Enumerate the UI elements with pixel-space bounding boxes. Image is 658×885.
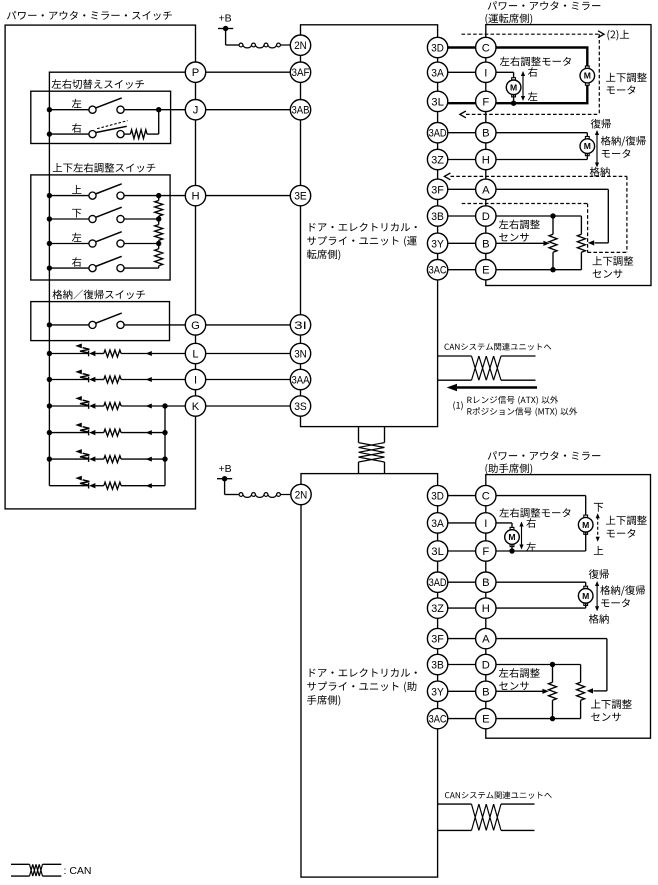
wire: 3F to A sensor wiper — [438, 188, 609, 190]
wire: motor to H — [585, 603, 587, 608]
switch contact — [117, 265, 124, 272]
resistor — [130, 130, 147, 139]
svg-text:3F: 3F — [431, 634, 444, 646]
mirror box: power outer mirror (driver side) — [486, 25, 651, 286]
label: up/down adjust sensor — [591, 699, 632, 709]
wire — [95, 432, 103, 434]
box: up/down/left/right adjusting switch — [31, 175, 170, 280]
label: retract/return motor — [600, 585, 645, 596]
svg-text:B: B — [482, 686, 489, 698]
wire — [49, 458, 88, 460]
mirror pin E — [476, 708, 496, 728]
wire — [552, 665, 554, 683]
arrow: travel right/left — [521, 525, 523, 546]
arrow: motor travel right/left — [522, 75, 524, 98]
circuit breaker coil — [239, 493, 243, 497]
mirror box: power outer mirror (passenger side) — [486, 475, 651, 739]
connector pin L — [185, 343, 205, 363]
arrow: wiper to up/down sensor — [587, 688, 593, 693]
label: 左 — [72, 233, 82, 242]
connector pin P — [185, 62, 205, 82]
CAN braid symbol vertical — [359, 443, 385, 462]
wire: 3AC to E sensor bottom — [438, 269, 582, 271]
circuit breaker coil — [239, 43, 243, 47]
svg-text:D: D — [482, 211, 490, 223]
mirror pin H — [476, 149, 496, 169]
connector pin 2N — [290, 35, 310, 55]
connector pin 3S — [290, 396, 310, 416]
wire — [49, 379, 88, 381]
wire: to G — [124, 324, 195, 326]
wire — [49, 432, 88, 434]
node: bus junction — [47, 216, 52, 221]
connector pin 3I — [290, 315, 310, 335]
svg-text:I: I — [484, 67, 487, 79]
svg-text:3D: 3D — [431, 491, 444, 503]
label: retract/return motor — [601, 136, 646, 147]
node: junction — [162, 430, 167, 435]
label: power outer mirror (driver side) — [488, 1, 601, 10]
connector pin H — [185, 185, 205, 205]
wire — [147, 133, 159, 135]
label: right — [528, 67, 537, 77]
svg-text:A: A — [482, 634, 490, 646]
svg-text:J: J — [193, 105, 199, 117]
svg-text:K: K — [192, 401, 200, 413]
switch contact — [89, 106, 96, 113]
switch contact — [89, 321, 96, 328]
motor M retract/return (passenger) — [584, 586, 588, 589]
node: junction on F — [511, 101, 516, 106]
label: left/right adjust sensor — [499, 668, 540, 678]
wire: up to J row — [158, 110, 160, 134]
node: junction — [162, 456, 167, 461]
wire with arrow — [121, 353, 195, 355]
svg-text:I: I — [484, 518, 487, 530]
label: right — [526, 518, 535, 528]
svg-text:3I: 3I — [294, 320, 307, 332]
node: junction — [156, 193, 161, 198]
connector pin I — [185, 369, 205, 389]
wire: down to sensor — [552, 216, 554, 234]
wire: A wiper path — [607, 189, 609, 243]
LED indicator row 1 — [88, 351, 90, 357]
svg-text:3B: 3B — [431, 660, 444, 672]
wire with arrow — [121, 379, 195, 381]
motor M left/right adjust (driver) — [512, 78, 516, 81]
wire: 3Y to B wiper — [438, 690, 543, 692]
legend: CAN symbol — [11, 863, 30, 865]
label: 右 — [72, 257, 81, 267]
label: to CAN system related units (lower) — [445, 791, 552, 799]
svg-text:3AF: 3AF — [292, 67, 310, 79]
svg-text:3B: 3B — [431, 211, 444, 223]
connector pin 3AD — [427, 572, 447, 592]
switch lever (right, solid) — [95, 126, 126, 132]
wire — [49, 405, 88, 407]
connector pin 3AC — [427, 260, 447, 280]
mirror pin I — [476, 62, 496, 82]
resistor — [104, 350, 121, 357]
wire: right row — [124, 267, 159, 269]
connector pin 3AC — [427, 708, 447, 728]
svg-text:I: I — [194, 375, 197, 387]
dashed line — [626, 176, 628, 252]
label: left/right adjusting motor — [499, 508, 570, 518]
mirror pin F — [476, 541, 496, 561]
svg-text:+B: +B — [219, 13, 232, 25]
connector pin 3Z — [427, 149, 447, 169]
wire: supply bus from P — [49, 71, 195, 73]
connector pin K — [185, 396, 205, 416]
wire: to junction — [124, 109, 159, 111]
power tap +B — [218, 28, 233, 30]
svg-text:H: H — [482, 603, 490, 615]
wire: left row — [124, 243, 159, 245]
wire rows switch to unit — [196, 71, 301, 73]
wire: 3Z to H — [438, 607, 586, 609]
wire — [49, 485, 88, 487]
connector pin 3AF — [290, 62, 310, 82]
wire: 3B to D — [438, 664, 581, 666]
connector pin 3Z — [427, 598, 447, 618]
wire: 3A to I — [438, 522, 512, 524]
wire — [552, 252, 554, 269]
mirror pin H — [476, 598, 496, 618]
label: power outer mirror switch — [7, 11, 172, 20]
switch contact — [89, 131, 96, 138]
connector pin 3L — [427, 91, 447, 111]
wire: down to sensor 2 — [580, 216, 582, 234]
node: bus junction — [47, 403, 52, 408]
wire — [49, 195, 89, 197]
label: retract — [590, 167, 610, 177]
node: bus junction — [47, 265, 52, 270]
switch contact — [89, 265, 96, 272]
svg-text:M: M — [584, 141, 591, 151]
wire — [49, 267, 89, 269]
wire: right vertical of LED matrix — [164, 406, 166, 486]
connector pin 3L — [427, 541, 447, 561]
svg-text:3N: 3N — [294, 349, 307, 361]
svg-text:3AA: 3AA — [292, 375, 310, 387]
svg-text:3L: 3L — [431, 546, 444, 558]
svg-text:M: M — [510, 82, 517, 92]
mirror pin B (sensor) — [476, 233, 496, 253]
resistor — [155, 249, 163, 266]
wire — [49, 243, 89, 245]
node: junction D row — [550, 662, 555, 667]
CAN braid symbol (lower) — [472, 804, 502, 830]
svg-text:2N: 2N — [294, 40, 307, 52]
label: power outer mirror (passenger side) — [488, 451, 601, 460]
wire — [580, 700, 582, 718]
arrow: signal direction (1) — [456, 386, 537, 389]
svg-text:C: C — [482, 43, 490, 55]
wire — [124, 133, 130, 135]
wire: 3AD to B — [438, 581, 586, 583]
wire — [225, 29, 227, 46]
label: left/right adjust sensor — [499, 220, 540, 230]
switch contact — [117, 321, 124, 328]
svg-text:C: C — [482, 491, 490, 503]
node: junction E row — [550, 716, 555, 721]
node: junction — [156, 241, 161, 246]
switch lever — [95, 256, 121, 266]
wire: chain vertical segments — [158, 196, 160, 201]
connector pin G — [185, 315, 205, 335]
svg-text:P: P — [192, 67, 199, 79]
connector pin 3F — [427, 628, 447, 648]
mirror pin B (sensor) — [476, 681, 496, 701]
potentiometer: left/right adjust sensor — [549, 234, 557, 252]
connector pin 3Y — [427, 681, 447, 701]
label: 下 — [72, 209, 81, 218]
wire — [280, 44, 300, 46]
wire: I to left/right motor — [511, 523, 513, 530]
svg-text:3AC: 3AC — [429, 714, 447, 726]
label: (2) up — [607, 30, 629, 41]
LED indicator row 2 — [88, 377, 90, 383]
svg-text:3Y: 3Y — [431, 238, 444, 250]
mirror pin C — [476, 37, 496, 57]
node: bus junction right row — [47, 131, 52, 136]
node: bus junction — [47, 430, 52, 435]
switch lever (left) — [95, 98, 121, 108]
mirror pin E — [476, 260, 496, 280]
potentiometer: up/down adjust sensor — [577, 234, 585, 252]
connector pin 3AA — [290, 369, 310, 389]
wire: junction to J — [159, 109, 196, 111]
svg-text:L: L — [192, 349, 198, 361]
connector pin 3A — [427, 513, 447, 533]
svg-text:: CAN: : CAN — [64, 865, 92, 877]
node: bus junction — [47, 351, 52, 356]
svg-text:B: B — [482, 128, 489, 140]
connector pin J — [185, 100, 205, 120]
connector pin 3B — [427, 654, 447, 674]
connector pin 3D (passenger) — [427, 485, 447, 505]
svg-text:3D: 3D — [431, 43, 444, 55]
wire — [280, 494, 301, 496]
dashed line — [587, 204, 589, 253]
wire with arrow — [121, 458, 165, 460]
resistor — [155, 225, 163, 241]
node: junction on F — [509, 548, 514, 553]
label: up/down adjusting motor — [606, 73, 647, 83]
mirror pin D — [476, 654, 496, 674]
wire: motor to F — [511, 544, 513, 551]
svg-text:F: F — [482, 96, 489, 108]
node: junction — [156, 107, 161, 112]
wire: 3Z to H from retract motor — [438, 159, 588, 161]
mirror pin I — [476, 513, 496, 533]
wire: sensor 2 top — [580, 665, 582, 683]
svg-text:E: E — [482, 714, 489, 726]
svg-text:3F: 3F — [431, 184, 444, 196]
svg-text:3AD: 3AD — [429, 128, 447, 140]
connector pin 3F — [427, 179, 447, 199]
wire — [95, 458, 103, 460]
dashed line down — [598, 34, 600, 114]
outer box: power outer mirror switch assembly — [5, 25, 195, 509]
connector pin 3AB — [290, 100, 310, 120]
node: bus junction — [47, 193, 52, 198]
label: up/down/left/right adjusting switch — [53, 163, 156, 173]
wire: B to retract motor down — [586, 133, 588, 139]
wire: motor to F row — [513, 95, 515, 104]
wire: I to left/right motor — [513, 72, 515, 80]
motor M retract/return (driver) — [585, 137, 589, 140]
svg-text:M: M — [584, 71, 591, 81]
svg-text:E: E — [482, 265, 489, 277]
wire — [580, 252, 582, 269]
switch contact — [89, 192, 96, 199]
potentiometer: left/right adjust sensor (passenger) — [549, 682, 557, 700]
svg-text:2N: 2N — [295, 490, 308, 502]
wire: J row left — [49, 109, 89, 111]
node: junction D row — [550, 213, 555, 218]
wire: 3AD to B to retract motor — [438, 132, 588, 134]
wire — [49, 133, 89, 135]
wire: 3F to A — [438, 638, 607, 640]
wire: motor to F row — [585, 532, 587, 551]
wire: left vertical bus — [48, 72, 50, 486]
dashed arrow left — [466, 113, 599, 115]
svg-text:A: A — [482, 184, 490, 196]
resistor — [104, 456, 121, 463]
wire with arrow — [121, 432, 165, 434]
dashed line — [462, 203, 588, 205]
resistor — [155, 201, 163, 217]
mirror pin A — [476, 628, 496, 648]
connector pin 3AD — [427, 123, 447, 143]
wire: motor to H row — [586, 153, 588, 159]
mirror pin D — [476, 206, 496, 226]
dashed arrow: travel up/down — [597, 517, 599, 538]
svg-text:3A: 3A — [431, 518, 444, 530]
svg-text:F: F — [482, 546, 489, 558]
arrow: wiper from B — [542, 689, 548, 694]
svg-text:M: M — [582, 520, 589, 530]
power tap +B — [217, 478, 232, 480]
svg-text:B: B — [482, 577, 489, 589]
connector pin 3A — [427, 62, 447, 82]
svg-text:B: B — [482, 238, 489, 250]
resistor — [104, 482, 121, 489]
wire with arrow — [121, 405, 195, 407]
CAN bus between units — [358, 427, 360, 443]
unit box: door electrical supply unit (passenger side) — [301, 474, 438, 877]
unit box: door electrical supply unit (driver side) — [301, 25, 438, 427]
wire — [49, 353, 88, 355]
switch contact — [117, 240, 124, 247]
svg-text:3L: 3L — [431, 96, 444, 108]
connector pin 3Y — [427, 233, 447, 253]
wire: 3AC to E — [438, 718, 581, 720]
switch lever alternate position (dashed) — [97, 121, 127, 129]
label: left — [528, 92, 538, 101]
label: up/down adjust sensor — [593, 256, 634, 266]
label: left/right adjusting motor — [500, 57, 571, 67]
wire: 3Y to B sensor wiper — [438, 242, 544, 244]
svg-text:3A: 3A — [431, 67, 444, 79]
node: bus junction J row — [47, 107, 52, 112]
svg-text:3AD: 3AD — [429, 577, 447, 589]
connector pin 3B — [427, 206, 447, 226]
resistor — [104, 376, 121, 383]
wire: B to retract motor — [585, 582, 587, 588]
label: retract — [589, 614, 609, 624]
wire — [95, 379, 103, 381]
motor M left/right adjust (passenger) — [510, 527, 514, 530]
arrow: wiper from B — [543, 241, 549, 246]
wire — [49, 218, 89, 220]
switch lever — [95, 184, 121, 194]
svg-text:H: H — [482, 155, 490, 167]
wire with arrow — [121, 485, 165, 487]
node: bus junction — [47, 456, 52, 461]
switch lever — [95, 232, 121, 242]
motor M up/down adjust (driver) — [585, 66, 589, 69]
wire: 3D to C to up/down motor — [438, 495, 586, 497]
label: retract/return switch — [52, 290, 144, 300]
mirror pin C (passenger) — [476, 485, 496, 505]
connector pin 3D — [427, 37, 447, 57]
wire — [95, 485, 103, 487]
svg-text:+B: +B — [219, 463, 232, 475]
node: junction — [162, 403, 167, 408]
LED indicator row 5 — [88, 456, 90, 462]
svg-text:3Z: 3Z — [431, 155, 444, 167]
arrow: retract/return travel — [596, 585, 598, 608]
svg-text:3S: 3S — [294, 401, 307, 413]
svg-text:G: G — [191, 320, 200, 332]
box: left/right selector switch — [31, 91, 171, 143]
resistor — [104, 429, 121, 436]
mirror pin B — [476, 572, 496, 592]
wire: 3B to D sensor top — [438, 215, 582, 217]
label: to CAN system related units — [444, 343, 551, 351]
resistor — [104, 403, 121, 410]
label: 上 — [72, 185, 81, 194]
dashed indicator: (2) up — [462, 33, 601, 35]
CAN twisted pair wires — [438, 355, 472, 357]
label: door electrical supply unit (passenger side) — [310, 668, 417, 677]
label: return — [589, 569, 609, 579]
arrow: wiper to up/down sensor — [588, 240, 594, 245]
arrow: retract/return travel — [596, 134, 598, 165]
switch contact — [89, 215, 96, 222]
label: return — [591, 119, 611, 129]
wire: down row — [124, 218, 159, 220]
wire — [95, 405, 103, 407]
LED indicator row 3 — [88, 403, 90, 409]
mirror pin B — [476, 123, 496, 143]
wire — [552, 700, 554, 718]
mirror pin A — [476, 179, 496, 199]
mirror pin F — [476, 91, 496, 111]
note (1): R range signal (ATX) excluded — [453, 401, 462, 410]
svg-text:3AC: 3AC — [429, 265, 447, 277]
svg-text:3AB: 3AB — [292, 105, 310, 117]
switch contact — [117, 106, 124, 113]
wire — [49, 324, 89, 326]
dashed line — [588, 251, 627, 253]
dashed arrow: retract linkage — [444, 173, 450, 180]
label: up — [594, 546, 603, 555]
switch lever — [95, 207, 121, 217]
